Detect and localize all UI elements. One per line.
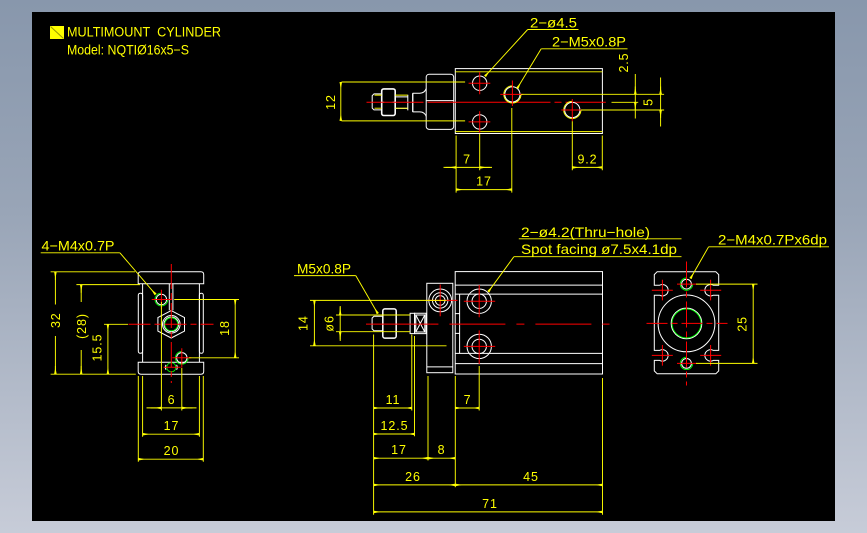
front view body inner wall line bbox=[459, 294, 461, 353]
svg-text:17: 17 bbox=[476, 175, 492, 189]
svg-text:45: 45 bbox=[523, 470, 539, 484]
front view body thru-hole bottom bbox=[464, 330, 495, 364]
left view rod circles bbox=[163, 316, 181, 334]
front view rod step washer bbox=[410, 313, 415, 333]
top view rod hex nut bbox=[382, 89, 396, 116]
top view rod wrench-flat band bbox=[408, 93, 413, 112]
dimension 8 (front view) bbox=[428, 457, 455, 459]
svg-text:7: 7 bbox=[463, 153, 471, 167]
top view rod thread root lines (yellow) bbox=[375, 95, 408, 108]
svg-text:11: 11 bbox=[386, 393, 401, 407]
label 2-o4.5 with leader bbox=[485, 15, 579, 77]
dimension 6 (left view) bbox=[147, 302, 197, 411]
right view vertical centerline bbox=[686, 262, 688, 386]
dimension 2.5 (top view) bbox=[521, 74, 664, 119]
svg-text:6: 6 bbox=[168, 393, 176, 407]
dimension 7 (top view) bbox=[444, 134, 493, 193]
front view rod thread tip bbox=[372, 316, 383, 330]
svg-text:15.5: 15.5 bbox=[91, 334, 105, 362]
dimension 11 (front view) bbox=[374, 335, 412, 515]
left view hole M4 bottom-right bbox=[172, 348, 191, 367]
svg-text:25: 25 bbox=[735, 316, 749, 332]
dimension 12.5 (front view) bbox=[374, 336, 415, 436]
top view hole 2-o4.5 lower bbox=[469, 111, 491, 132]
top view collar mid line bbox=[426, 100, 454, 102]
dimension 17 (front view) bbox=[374, 376, 428, 461]
top view main centerline bbox=[367, 101, 606, 103]
right view port M4 bottom bbox=[677, 357, 697, 369]
svg-text:7: 7 bbox=[464, 393, 472, 407]
right view bore circles bbox=[658, 295, 715, 352]
svg-text:(28): (28) bbox=[75, 313, 89, 339]
svg-text:2.5: 2.5 bbox=[617, 52, 631, 72]
svg-text:14: 14 bbox=[297, 315, 311, 331]
svg-text:71: 71 bbox=[482, 497, 498, 511]
top view collar (rod bushing boss) bbox=[426, 74, 454, 129]
svg-text:9.2: 9.2 bbox=[577, 153, 597, 167]
svg-text:ø6: ø6 bbox=[322, 315, 336, 331]
dimension 7 (front view) bbox=[455, 366, 479, 411]
label 2-o4.2 thru-hole spot facing with leader bbox=[488, 224, 681, 292]
dimension 15.5 (left view) bbox=[104, 324, 128, 374]
top view hole M5 center port bbox=[500, 81, 523, 107]
top view body outline bbox=[455, 69, 602, 134]
svg-text:2−ø4.5: 2−ø4.5 bbox=[530, 15, 577, 31]
top view rod thread tip bbox=[372, 94, 382, 110]
front view rod o6 edge lines (yellow) bbox=[336, 315, 410, 332]
svg-text:20: 20 bbox=[164, 444, 180, 458]
top view rod shaft lines bbox=[395, 97, 408, 109]
right view body outline with corner slots bbox=[654, 272, 718, 374]
left view hole M4 top-left bbox=[152, 290, 172, 310]
label M5x0.8P with leader bbox=[294, 260, 378, 313]
top view hole M5 right port bbox=[561, 99, 583, 121]
right view port M4 top bbox=[677, 278, 697, 290]
svg-text:12.5: 12.5 bbox=[381, 419, 409, 433]
left view right rail bbox=[199, 293, 203, 353]
front view body thru-hole top bbox=[464, 285, 495, 317]
svg-text:17: 17 bbox=[391, 443, 407, 457]
dimension 12 (top view rod height) bbox=[341, 82, 465, 121]
front view body groove lines bbox=[455, 285, 602, 364]
left view left rail bbox=[138, 293, 142, 353]
svg-text:2−M4x0.7Px6dp: 2−M4x0.7Px6dp bbox=[718, 231, 827, 247]
label 4-M4x0.7P with leader bbox=[41, 237, 156, 294]
svg-text:17: 17 bbox=[164, 419, 180, 433]
svg-text:Spot facing ø7.5x4.1dp: Spot facing ø7.5x4.1dp bbox=[521, 241, 677, 257]
dimension 17 (top view) bbox=[456, 108, 512, 193]
svg-text:Model: NQTIØ16x5−S: Model: NQTIØ16x5−S bbox=[67, 43, 189, 58]
front view rod bore in body wall bbox=[455, 314, 459, 334]
svg-text:18: 18 bbox=[218, 320, 232, 336]
left view vertical centerline bbox=[170, 264, 172, 383]
left view rod slot above hex bbox=[169, 284, 173, 310]
svg-text:26: 26 bbox=[405, 470, 421, 484]
dimension 17 (left view) bbox=[143, 376, 200, 437]
svg-text:32: 32 bbox=[49, 312, 63, 328]
top view rod hex nut vertex marks bbox=[382, 101, 396, 103]
dimension 71 (front view) bbox=[374, 511, 603, 513]
top view body inner edge lines (yellow) bbox=[455, 72, 602, 132]
left view rod hex boss bbox=[158, 311, 185, 338]
title block marker square bbox=[50, 26, 64, 39]
front view flange bottom lip line bbox=[427, 366, 453, 368]
svg-text:5: 5 bbox=[641, 98, 655, 106]
front view body outline bbox=[455, 272, 602, 374]
front view flange hole bbox=[428, 285, 458, 317]
front view rod wrench-flat square bbox=[415, 313, 426, 333]
top view hole 2-o4.5 upper bbox=[469, 72, 491, 94]
dimension 20 (left view) bbox=[138, 376, 203, 462]
dimension 9.2 (top view) bbox=[572, 121, 602, 170]
dimension 14 (front view) bbox=[310, 300, 447, 345]
dimension 26 (front view) bbox=[374, 376, 456, 487]
dimension 5 (top view) bbox=[660, 78, 662, 127]
svg-text:8: 8 bbox=[438, 443, 446, 457]
left view top cap bbox=[138, 272, 204, 284]
label 2-M5x0.8P with leader bbox=[517, 34, 627, 89]
right view bore thread circle green bbox=[672, 309, 701, 338]
svg-text:12: 12 bbox=[324, 94, 338, 110]
dimension 18 (left view) bbox=[174, 300, 239, 358]
front view main centerline bbox=[366, 323, 610, 325]
svg-text:2−ø4.2(Thru−hole): 2−ø4.2(Thru−hole) bbox=[521, 224, 650, 240]
dimension 25 (right view) bbox=[696, 284, 758, 363]
front view flange plate bbox=[427, 283, 453, 372]
right view slot centerline crosses bbox=[652, 280, 721, 366]
top view boss taper flare bbox=[413, 89, 427, 117]
right view horizontal centerline bbox=[647, 322, 728, 324]
front view rod hex nut bbox=[383, 309, 396, 338]
left view bottom cap bbox=[138, 362, 204, 374]
svg-text:M5x0.8P: M5x0.8P bbox=[297, 260, 351, 276]
dimension o6 (front view) bbox=[339, 306, 341, 341]
svg-text:MULTIMOUNT CYLINDER: MULTIMOUNT CYLINDER bbox=[67, 25, 221, 41]
label 2-M4x0.7Px6dp with leader bbox=[691, 231, 830, 278]
left view rod thread circle green bbox=[165, 318, 178, 331]
left view column sides bbox=[143, 284, 200, 362]
svg-text:2−M5x0.8P: 2−M5x0.8P bbox=[552, 34, 626, 50]
dimension 32 (left view) bbox=[51, 272, 136, 374]
dimension (28) (left view) bbox=[76, 285, 140, 375]
left view bottom port bbox=[164, 363, 181, 372]
dimension 45 (front view) bbox=[455, 378, 602, 515]
left view horizontal centerline bbox=[129, 323, 214, 325]
svg-text:4−M4x0.7P: 4−M4x0.7P bbox=[42, 237, 115, 253]
